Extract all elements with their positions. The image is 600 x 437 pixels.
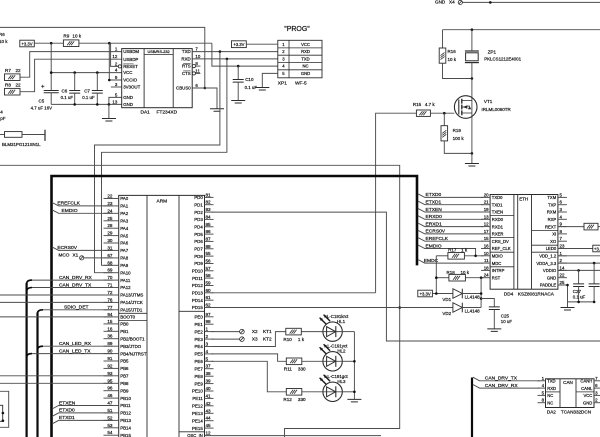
svg-text:0.1 uF: 0.1 uF: [61, 95, 74, 100]
svg-text:PE8: PE8: [194, 374, 203, 379]
svg-text:PA13/JTMS: PA13/JTMS: [120, 293, 143, 298]
wire USB top line to CBUS0: [0, 27, 205, 88]
svg-text:PA8: PA8: [120, 256, 129, 261]
svg-text:10 k: 10 k: [448, 57, 457, 62]
svg-text:PKLCS1212E4001: PKLCS1212E4001: [484, 57, 521, 62]
svg-text:29: 29: [107, 231, 113, 236]
svg-text:GND: GND: [123, 95, 133, 100]
svg-text:"PROG": "PROG": [284, 26, 310, 33]
resistor R17: [436, 255, 448, 257]
svg-text:44: 44: [206, 416, 212, 421]
svg-text:85: 85: [206, 222, 212, 227]
diode VD2 LL4148: [453, 303, 462, 313]
svg-text:PB6: PB6: [120, 366, 129, 371]
CAN transceiver DA2 outline: [546, 379, 595, 408]
svg-text:TXP: TXP: [548, 202, 556, 207]
svg-text:ZP1: ZP1: [488, 49, 497, 54]
svg-text:GND: GND: [583, 400, 592, 405]
svg-text:IRLML0060TR: IRLML0060TR: [482, 107, 512, 112]
svg-text:X2: X2: [252, 329, 258, 334]
wire PE4 to R10: [212, 332, 286, 347]
svg-text:38: 38: [206, 371, 212, 376]
svg-text:59: 59: [206, 281, 212, 286]
svg-text:+3.3V: +3.3V: [233, 42, 244, 47]
svg-text:DA2: DA2: [547, 409, 556, 414]
svg-text:97: 97: [206, 312, 212, 317]
svg-text:86: 86: [206, 229, 212, 234]
net ETXD0 to PB12: [52, 413, 113, 417]
resistor R18: [436, 277, 449, 279]
capacitor C7: [96, 73, 98, 91]
svg-text:ARM: ARM: [157, 199, 168, 205]
resistor R8: [5, 88, 21, 95]
svg-text:X4: X4: [449, 0, 455, 4]
svg-text:1 k: 1 k: [461, 248, 468, 253]
svg-text:43: 43: [206, 408, 212, 413]
svg-text:40: 40: [206, 386, 212, 391]
svg-text:SDIO_DET: SDIO_DET: [64, 305, 88, 311]
svg-text:CAN_DRV_TX: CAN_DRV_TX: [485, 376, 518, 382]
svg-text:95: 95: [107, 378, 113, 383]
svg-text:PA15/JTD1: PA15/JTD1: [120, 308, 143, 313]
net EMDIO jog to R17: [418, 245, 476, 256]
svg-text:VCCIO: VCCIO: [123, 78, 137, 83]
ground under LEDs: [347, 399, 361, 402]
capacitor C27: [578, 270, 580, 284]
net EMDC: [418, 260, 483, 264]
wire long net y165: [0, 165, 400, 437]
capacitor C10: [237, 66, 239, 79]
svg-text:PD11: PD11: [192, 276, 203, 281]
connector XP1 WF-5: [278, 40, 322, 78]
module frame thick border: [52, 176, 418, 437]
svg-text:ETXD1: ETXD1: [426, 200, 442, 206]
svg-text:PE15: PE15: [192, 426, 203, 431]
svg-text:KT2: KT2: [263, 337, 272, 342]
LED HL2: [302, 360, 323, 362]
power +3.3V box diodes: [418, 290, 433, 297]
svg-text:+3.3V: +3.3V: [21, 41, 32, 46]
wire R15 line from PD13: [376, 113, 417, 293]
svg-text:PA1: PA1: [120, 204, 129, 209]
wire +3.3V to XP1 pin1: [246, 43, 277, 45]
svg-text:C7: C7: [84, 88, 90, 93]
LED HL3: [302, 391, 323, 393]
svg-text:PE7: PE7: [194, 366, 203, 371]
svg-text:TCAN332DCN: TCAN332DCN: [561, 409, 591, 414]
svg-text:0.1 uF: 0.1 uF: [573, 295, 586, 300]
svg-text:LED0: LED0: [546, 246, 557, 251]
svg-text:PB8: PB8: [120, 381, 129, 386]
svg-text:93: 93: [107, 371, 113, 376]
wire JTMS long: [0, 294, 113, 296]
svg-text:RXP: RXP: [548, 217, 557, 222]
svg-text:R18: R18: [447, 270, 456, 275]
svg-text:REF_CLK: REF_CLK: [492, 246, 511, 251]
wire VCC feed: [51, 72, 122, 74]
svg-text:C6: C6: [62, 88, 68, 93]
svg-text:RXER: RXER: [492, 232, 504, 237]
svg-text:42: 42: [206, 401, 212, 406]
svg-text:+3.3V: +3.3V: [420, 291, 431, 296]
svg-text:PADDLE: PADDLE: [540, 283, 557, 288]
wire RXD loop to MCU PA9: [102, 59, 227, 265]
net CAN_DRV_TX to DA2: [473, 377, 540, 381]
svg-text:RESET: RESET: [123, 64, 138, 69]
svg-text:FT234XD: FT234XD: [157, 109, 178, 115]
svg-text:57: 57: [206, 266, 212, 271]
svg-text:INTRP: INTRP: [492, 268, 505, 273]
svg-text:R10: R10: [283, 337, 292, 342]
svg-text:51: 51: [107, 408, 113, 413]
svg-text:C27: C27: [573, 289, 582, 294]
svg-text:12: 12: [206, 431, 212, 436]
svg-text:HL3: HL3: [337, 379, 346, 384]
svg-text:11: 11: [195, 68, 200, 73]
svg-text:39: 39: [206, 379, 212, 384]
wire R15 to gate: [430, 112, 454, 114]
svg-text:88: 88: [206, 244, 212, 249]
svg-text:R11: R11: [284, 366, 293, 371]
junction PD15-VD2 line: [398, 306, 401, 309]
MCU ARM chip outline: [119, 195, 205, 437]
svg-text:PB5: PB5: [120, 359, 129, 364]
svg-text:62: 62: [206, 303, 212, 308]
net EMDIO to PA2: [52, 210, 113, 214]
net CAN_DRV_RX to PA11: [27, 280, 32, 284]
svg-text:10 k: 10 k: [0, 39, 8, 44]
svg-text:CAN_LED_RX: CAN_LED_RX: [59, 341, 92, 347]
svg-text:PB9: PB9: [120, 388, 129, 393]
transistor VT1 IRLML0060TR: [471, 79, 473, 154]
svg-text:18: 18: [484, 265, 489, 270]
bus CAN thick line 1: [26, 283, 28, 437]
svg-text:PD12: PD12: [192, 283, 204, 288]
svg-text:PE4: PE4: [194, 344, 203, 349]
svg-text:BOOT0: BOOT0: [120, 315, 135, 320]
svg-text:X1: X1: [73, 253, 79, 258]
svg-text:RTS: RTS: [182, 64, 191, 69]
svg-text:22: 22: [107, 194, 113, 199]
svg-text:100 k: 100 k: [453, 136, 465, 141]
svg-text:PE6: PE6: [194, 359, 203, 364]
wire RXD to XP1: [192, 58, 278, 60]
svg-text:CTS: CTS: [182, 71, 191, 76]
wire RST vertical: [480, 278, 482, 308]
node X2 KT1 test point: [212, 331, 240, 333]
svg-text:16: 16: [484, 244, 489, 249]
capacitor C28: [593, 263, 595, 284]
PHY right separators: [532, 230, 558, 232]
svg-text:PA9: PA9: [120, 263, 129, 268]
svg-text:GND: GND: [547, 275, 556, 280]
svg-text:PD1: PD1: [194, 202, 203, 207]
svg-text:82: 82: [206, 200, 212, 205]
svg-text:ERXD0: ERXD0: [426, 214, 443, 220]
svg-text:10: 10: [484, 251, 489, 256]
svg-text:0.1 uF: 0.1 uF: [82, 95, 95, 100]
svg-text:12: 12: [112, 54, 117, 59]
svg-text:60: 60: [206, 288, 212, 293]
svg-text:PB11: PB11: [120, 403, 131, 408]
wire PADDLE to ground: [558, 285, 594, 302]
svg-text:LL4148: LL4148: [465, 309, 481, 314]
svg-text:PD3: PD3: [194, 217, 203, 222]
ETH PHY DD4 outline: [490, 195, 558, 290]
svg-text:R12: R12: [283, 397, 292, 402]
ground under CBUS0: [210, 109, 224, 112]
svg-text:PD6: PD6: [194, 239, 203, 244]
svg-text:17: 17: [484, 229, 489, 234]
svg-text:77: 77: [107, 305, 113, 310]
svg-text:15: 15: [484, 236, 489, 241]
svg-text:R16: R16: [448, 49, 457, 54]
svg-text:52: 52: [107, 415, 113, 420]
ground under VT1: [471, 153, 473, 163]
svg-text:HL1: HL1: [337, 319, 346, 324]
svg-text:C10: C10: [245, 77, 254, 82]
LED HL1: [301, 331, 323, 333]
svg-text:PE10: PE10: [192, 389, 203, 394]
capacitor C6: [74, 73, 76, 91]
svg-text:C5: C5: [39, 98, 45, 103]
svg-text:PA4: PA4: [120, 226, 129, 231]
net ECRS0V to PA7: [52, 247, 113, 251]
svg-text:37: 37: [206, 364, 212, 369]
node X3 KT2 test point: [212, 338, 240, 340]
svg-text:EREFCLK: EREFCLK: [57, 201, 80, 207]
wire pullup rail: [435, 256, 437, 294]
svg-text:LL4148: LL4148: [465, 295, 481, 300]
svg-text:REXT: REXT: [545, 224, 557, 229]
svg-text:CAN_LED_TX: CAN_LED_TX: [59, 348, 91, 354]
svg-text:VCC: VCC: [301, 42, 310, 47]
svg-text:PD8: PD8: [194, 254, 203, 259]
svg-text:VCC: VCC: [583, 393, 592, 398]
svg-text:VD1: VD1: [442, 297, 451, 302]
svg-text:DA1: DA1: [141, 109, 151, 115]
svg-text:11: 11: [484, 258, 489, 263]
svg-text:330: 330: [298, 366, 306, 371]
svg-text:PE12: PE12: [192, 404, 203, 409]
svg-text:3V3OUT: 3V3OUT: [123, 85, 140, 90]
svg-text:83: 83: [206, 207, 212, 212]
svg-text:ETXD0: ETXD0: [426, 192, 442, 198]
svg-text:EMDIO: EMDIO: [62, 208, 78, 214]
svg-text:R6: R6: [0, 32, 5, 37]
svg-text:RXD0: RXD0: [492, 217, 504, 222]
svg-text:PB13: PB13: [120, 418, 131, 423]
svg-text:58: 58: [206, 273, 212, 278]
svg-text:4.7 uF 16V: 4.7 uF 16V: [31, 105, 53, 110]
net CAN_LED_RX to PB3: [38, 346, 44, 350]
svg-text:84: 84: [206, 214, 212, 219]
wire PD15 to VD2: [212, 307, 453, 309]
svg-text:CAN_DRV_TX: CAN_DRV_TX: [59, 282, 92, 288]
svg-text:PD15: PD15: [192, 305, 204, 310]
net ETXD1 to PB13: [52, 420, 113, 424]
power +3.3V box top-left: [20, 40, 35, 47]
svg-text:XP1: XP1: [278, 80, 287, 86]
svg-text:X3: X3: [252, 337, 258, 342]
svg-text:+: +: [41, 85, 45, 91]
svg-text:25: 25: [560, 280, 565, 285]
svg-text:TXD0: TXD0: [492, 195, 503, 200]
svg-text:89: 89: [107, 341, 113, 346]
resistor REXT: [558, 226, 584, 228]
svg-text:RXD: RXD: [181, 57, 190, 62]
net CAN_DRV_RX to DA2: [473, 385, 540, 389]
FT RTS CTS overlines: [183, 63, 191, 65]
svg-text:PE13: PE13: [192, 411, 203, 416]
buzzer ZP1: [471, 30, 473, 51]
svg-text:22: 22: [560, 273, 565, 278]
svg-text:ECRS0V: ECRS0V: [426, 229, 446, 235]
svg-text:USBDP: USBDP: [123, 57, 138, 62]
svg-text:ETXEN: ETXEN: [59, 400, 76, 406]
svg-text:R19: R19: [453, 128, 462, 133]
svg-text:PD14: PD14: [192, 298, 204, 303]
svg-text:PB2/BOOT1: PB2/BOOT1: [120, 336, 145, 341]
svg-text:CANL: CANL: [581, 386, 593, 391]
svg-text:R8: R8: [5, 82, 11, 87]
svg-text:13: 13: [484, 214, 489, 219]
FT RESET overline: [123, 63, 133, 65]
svg-text:71: 71: [107, 283, 113, 288]
wire JTCK long: [0, 301, 113, 303]
svg-text:VD2: VD2: [442, 311, 451, 316]
capacitor C25: [481, 299, 494, 307]
svg-text:ERXD1: ERXD1: [426, 221, 443, 227]
svg-text:PE14: PE14: [192, 418, 203, 423]
svg-text:CRS_DV: CRS_DV: [492, 239, 509, 244]
svg-text:PE9: PE9: [194, 381, 203, 386]
svg-text:16: 16: [107, 326, 113, 331]
svg-text:TXD1: TXD1: [492, 202, 503, 207]
svg-text:TXEN: TXEN: [492, 210, 503, 215]
svg-text:PB14: PB14: [120, 426, 131, 431]
svg-text:61: 61: [206, 295, 212, 300]
svg-text:22: 22: [16, 82, 22, 87]
svg-text:1 k: 1 k: [298, 337, 305, 342]
wire bottom-left loop: [0, 391, 9, 427]
svg-text:67: 67: [107, 253, 113, 258]
resistor R9: [63, 40, 79, 47]
diode VD1 LL4148: [453, 289, 462, 299]
svg-text:25: 25: [107, 216, 113, 221]
wire OSC out: [205, 435, 382, 437]
svg-text:GND: GND: [301, 71, 310, 76]
wire VCCIO feed: [109, 43, 121, 80]
svg-text:TXD: TXD: [182, 49, 191, 54]
svg-text:VDDIO: VDDIO: [543, 268, 557, 273]
wire 3.3V to XP1 pin4: [212, 43, 278, 66]
svg-text:WF-5: WF-5: [295, 80, 307, 86]
junction buzzer bottom: [471, 77, 474, 80]
svg-text:PE2: PE2: [194, 329, 203, 334]
svg-text:45: 45: [206, 423, 212, 428]
junction VT1 source: [471, 152, 474, 155]
wire +3.3V to VD1: [432, 293, 453, 295]
svg-text:14: 14: [560, 265, 565, 270]
bus CAN driver thick line right: [471, 378, 473, 437]
svg-text:53: 53: [107, 423, 113, 428]
svg-text:22: 22: [16, 68, 22, 73]
wire RESET pullup: [111, 43, 119, 66]
ferrite bead BLM31PG121SN1L: [0, 134, 5, 136]
svg-text:30: 30: [107, 238, 113, 243]
svg-text:55: 55: [206, 251, 212, 256]
svg-text:CAN_DRV_RX: CAN_DRV_RX: [59, 275, 93, 281]
svg-text:+3.: +3.: [594, 246, 600, 251]
svg-text:PA6: PA6: [120, 241, 129, 246]
svg-text:VCC: VCC: [123, 70, 132, 75]
svg-text:20: 20: [484, 192, 489, 197]
svg-text:BLM31PG121SN1L: BLM31PG121SN1L: [2, 142, 41, 147]
svg-text:USB/RS-232: USB/RS-232: [147, 49, 169, 54]
svg-text:4: 4: [206, 349, 209, 354]
svg-text:28: 28: [107, 223, 113, 228]
svg-text:CANH: CANH: [580, 379, 592, 384]
PHY left separators: [490, 215, 514, 217]
svg-text:PB7: PB7: [120, 374, 129, 379]
wire GND bus: [51, 103, 122, 105]
svg-text:24: 24: [484, 273, 489, 278]
resistor R10: [286, 328, 302, 335]
svg-text:54: 54: [107, 430, 113, 435]
power +3.3V box LED0: [558, 248, 593, 250]
svg-text:ETXD0: ETXD0: [59, 408, 75, 414]
resistor R19: [443, 113, 445, 126]
svg-text:NC: NC: [547, 393, 553, 398]
svg-text:69: 69: [107, 268, 113, 273]
svg-text:19: 19: [484, 207, 489, 212]
svg-text:4.7 k: 4.7 k: [425, 102, 436, 107]
svg-text:10: 10: [195, 54, 200, 59]
svg-text:PE3: PE3: [194, 337, 203, 342]
svg-text:PB0: PB0: [120, 322, 129, 327]
svg-text:PB3/JTDO: PB3/JTDO: [120, 344, 142, 349]
svg-text:USBDM: USBDM: [123, 49, 139, 54]
svg-text:PB15: PB15: [120, 433, 131, 437]
svg-text:10 uF: 10 uF: [501, 319, 513, 324]
svg-text:PA0: PA0: [120, 196, 129, 201]
svg-text:PB12: PB12: [120, 411, 131, 416]
svg-text:87: 87: [206, 236, 212, 241]
svg-text:KT1: KT1: [263, 329, 272, 334]
svg-text:31: 31: [107, 245, 113, 250]
svg-text:PA14/JTCK: PA14/JTCK: [120, 300, 143, 305]
MCU left column separators: [119, 312, 147, 314]
net CAN_LED_TX to PB4: [27, 354, 32, 358]
svg-text:C4: C4: [0, 110, 3, 115]
svg-text:PA3: PA3: [120, 219, 129, 224]
svg-text:23: 23: [560, 244, 565, 249]
svg-text:46: 46: [107, 393, 113, 398]
wire PE6 to R12: [212, 361, 287, 392]
svg-text:TXM: TXM: [547, 195, 556, 200]
wire R8 to USBDP: [20, 59, 122, 91]
svg-text:10 k: 10 k: [461, 270, 470, 275]
svg-text:PB10: PB10: [120, 396, 131, 401]
wire TXD loop to MCU PA10: [95, 52, 220, 273]
svg-text:PE5: PE5: [194, 352, 203, 357]
svg-text:91: 91: [107, 356, 113, 361]
svg-text:R9: R9: [63, 34, 69, 39]
resistor R16: [442, 30, 444, 48]
wire +3.3V rail: [34, 42, 63, 44]
svg-text:47: 47: [107, 401, 113, 406]
